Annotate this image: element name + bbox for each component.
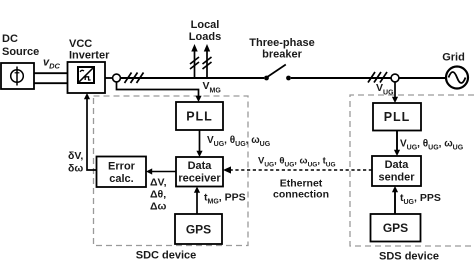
svg-text:Three-phase: Three-phase — [249, 37, 314, 49]
PLL box right — [373, 103, 421, 131]
svg-text:Inverter: Inverter — [69, 50, 110, 62]
feedback wire error calc to inverter — [87, 98, 97, 170]
svg-text:PLL: PLL — [384, 110, 411, 124]
inverter U1 box — [68, 62, 106, 93]
wire PLL to receiver — [199, 130, 201, 152]
V_MG tap wire — [117, 82, 199, 97]
svg-text:Loads: Loads — [189, 31, 221, 43]
svg-text:VCC: VCC — [69, 38, 92, 50]
ethernet dashed arrow — [231, 169, 373, 171]
svg-text:Local: Local — [191, 19, 220, 31]
SDC device dashed box — [94, 96, 249, 246]
svg-text:GPS: GPS — [383, 221, 408, 235]
bus wire MG — [120, 77, 264, 79]
wire GPS to receiver — [196, 192, 198, 214]
svg-text:sender: sender — [378, 172, 415, 184]
three-phase slashes left — [125, 73, 144, 84]
svg-text:Grid: Grid — [442, 52, 465, 64]
DC source box — [1, 63, 34, 89]
local load tap 2 — [203, 50, 212, 77]
inverter symbol — [78, 67, 94, 83]
Data sender box — [372, 156, 421, 186]
svg-text:receiver: receiver — [178, 173, 221, 185]
node circle MG — [113, 74, 121, 82]
PLL box left — [176, 102, 223, 130]
svg-text:Source: Source — [2, 46, 39, 58]
svg-text:GPS: GPS — [186, 223, 211, 237]
svg-text:Data: Data — [188, 160, 213, 172]
svg-text:Δθ,: Δθ, — [150, 189, 166, 201]
bus wire UG — [291, 77, 391, 79]
wire node to grid — [399, 77, 446, 79]
svg-text:δω: δω — [68, 163, 83, 175]
wire PLL to sender — [396, 131, 398, 152]
svg-text:connection: connection — [273, 189, 329, 201]
dc link wire top — [34, 72, 68, 74]
Error calc box — [97, 157, 147, 188]
svg-text:SDC device: SDC device — [136, 250, 197, 261]
svg-text:δV,: δV, — [68, 150, 83, 162]
svg-text:PLL: PLL — [186, 110, 213, 124]
svg-text:DC: DC — [2, 33, 18, 45]
svg-text:ΔV,: ΔV, — [150, 177, 167, 189]
three-phase slashes right — [368, 72, 387, 83]
breaker dot left — [264, 76, 269, 81]
SDS device dashed box — [350, 95, 474, 246]
svg-text:Data: Data — [385, 159, 410, 171]
grid source — [446, 67, 468, 89]
wire inverter to node — [105, 77, 113, 79]
breaker dot right — [286, 76, 291, 81]
DC source symbol — [11, 67, 24, 86]
svg-text:breaker: breaker — [262, 49, 302, 61]
Data receiver box — [176, 157, 223, 187]
node circle UG — [391, 74, 399, 82]
dc link wire bottom — [34, 82, 68, 84]
GPS box left — [175, 214, 222, 244]
svg-text:SDS device: SDS device — [379, 251, 439, 261]
local load tap 1 — [190, 50, 199, 77]
svg-text:Error: Error — [108, 161, 136, 173]
breaker blade — [267, 65, 286, 78]
wire receiver to error calc — [152, 171, 177, 173]
svg-text:calc.: calc. — [109, 173, 133, 185]
V_UG tap wire — [394, 82, 396, 98]
wire GPS to sender — [394, 192, 396, 215]
GPS box right — [371, 214, 421, 242]
svg-text:Δω: Δω — [150, 201, 167, 213]
